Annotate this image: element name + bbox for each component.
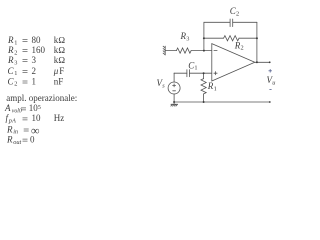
svg-text:R: R bbox=[6, 124, 13, 134]
svg-text:3: 3 bbox=[14, 59, 17, 66]
svg-text:160: 160 bbox=[32, 45, 46, 55]
svg-text:2: 2 bbox=[32, 66, 37, 76]
svg-text:Hz: Hz bbox=[54, 113, 65, 123]
svg-text:10: 10 bbox=[32, 113, 42, 123]
svg-text:2: 2 bbox=[14, 49, 17, 56]
svg-text:1: 1 bbox=[14, 39, 17, 46]
svg-text:1: 1 bbox=[194, 65, 197, 72]
svg-text:kΩ: kΩ bbox=[54, 35, 66, 45]
svg-text:3: 3 bbox=[186, 35, 189, 42]
svg-text:1: 1 bbox=[214, 85, 217, 92]
svg-text:2: 2 bbox=[14, 81, 17, 88]
svg-text:R: R bbox=[6, 134, 13, 144]
svg-text:in: in bbox=[13, 129, 18, 136]
svg-text:0: 0 bbox=[30, 134, 35, 144]
svg-text:3: 3 bbox=[32, 55, 37, 65]
svg-text:ampl. operazionale:: ampl. operazionale: bbox=[6, 93, 77, 103]
svg-text:1: 1 bbox=[32, 76, 37, 86]
svg-text:kΩ: kΩ bbox=[54, 55, 66, 65]
svg-text:80: 80 bbox=[32, 35, 42, 45]
svg-text:vol0: vol0 bbox=[12, 109, 22, 115]
svg-text:nF: nF bbox=[54, 76, 64, 86]
svg-text:kΩ: kΩ bbox=[54, 45, 66, 55]
svg-text:μ: μ bbox=[53, 66, 59, 76]
svg-text:2: 2 bbox=[236, 10, 239, 17]
svg-text:out: out bbox=[13, 139, 21, 146]
svg-text:u: u bbox=[272, 79, 275, 86]
svg-text:R: R bbox=[7, 45, 14, 55]
svg-text:A: A bbox=[4, 103, 11, 113]
svg-text:1: 1 bbox=[14, 70, 17, 77]
svg-text:F: F bbox=[59, 66, 64, 76]
svg-text:10: 10 bbox=[29, 103, 39, 113]
svg-text:R: R bbox=[7, 55, 14, 65]
svg-text:5: 5 bbox=[38, 105, 41, 111]
svg-text:R: R bbox=[7, 35, 14, 45]
svg-text:2: 2 bbox=[241, 45, 244, 52]
